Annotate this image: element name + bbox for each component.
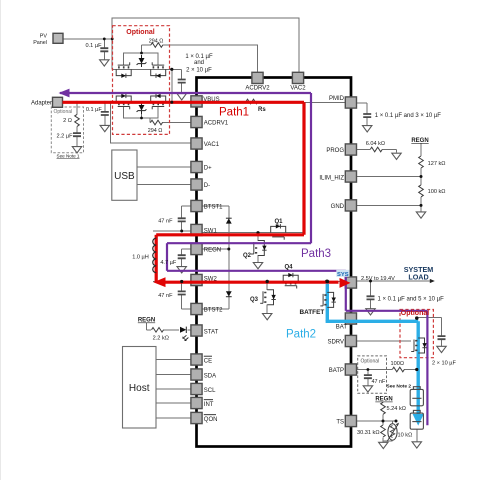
wire TS (357, 420, 397, 422)
pin SW1 (191, 224, 202, 235)
node SW2 cap junction (180, 280, 183, 283)
mosfet Q4 (283, 273, 298, 289)
Host box (123, 347, 157, 429)
optional box SDRV fet (red dashed) (400, 310, 433, 358)
svg-text:Path2: Path2 (286, 328, 316, 340)
svg-text:30.31 kΩ: 30.31 kΩ (357, 430, 380, 436)
svg-text:100Ω: 100Ω (391, 361, 405, 367)
svg-text:Optional: Optional (401, 310, 429, 317)
pin BATP (345, 364, 356, 375)
svg-text:SCL: SCL (204, 388, 216, 394)
battery cell 2 (over path) (410, 410, 423, 429)
wire red inductor leg (155, 235, 158, 282)
wire purple jog down (166, 243, 168, 271)
wire stat pullup (147, 323, 192, 330)
svg-text:10 kΩ: 10 kΩ (398, 433, 413, 439)
red arrow left at SW2 (153, 277, 165, 287)
IC body (197, 78, 352, 447)
svg-text:D-: D- (204, 183, 210, 189)
label SYS highlight (336, 270, 349, 277)
node top gate (140, 52, 143, 55)
pin CE (191, 354, 202, 365)
svg-text:REGN: REGN (204, 247, 221, 253)
thermistor 10k (387, 423, 399, 442)
ground BATP cap (363, 386, 372, 392)
svg-text:See Note 2: See Note 2 (387, 384, 412, 390)
svg-text:STAT: STAT (204, 329, 219, 335)
tvs diode bottom pair (137, 102, 147, 114)
wire 30.31k (382, 421, 384, 442)
svg-text:1 × 0.1 µF and 5 × 10 µF: 1 × 0.1 µF and 5 × 10 µF (378, 297, 445, 303)
ground adapter RC (72, 147, 81, 153)
tvs diode top pair (137, 55, 147, 67)
wire SYS caps (370, 281, 372, 309)
wire host SCL (156, 388, 191, 390)
wire top gate rail (124, 45, 159, 65)
pin REGN (191, 243, 202, 254)
svg-text:VBUS: VBUS (203, 97, 219, 103)
svg-text:SW1: SW1 (204, 228, 218, 234)
node SW1 bootstrap cap (180, 230, 183, 233)
node adapter RC tap (76, 101, 79, 104)
ground 4.7uF (177, 267, 186, 273)
ground PMID bank (363, 126, 372, 132)
node cyan BATP junction (415, 368, 418, 371)
svg-text:VAC1: VAC1 (204, 142, 220, 148)
svg-text:1 × 0.1 µF and 3 × 10 µF: 1 × 0.1 µF and 3 × 10 µF (375, 113, 442, 119)
wire 294 top to ACDRV2 (163, 45, 258, 72)
wire REGN divider (420, 143, 422, 212)
wire PMID caps (357, 103, 368, 126)
svg-text:2 Ω: 2 Ω (63, 118, 72, 124)
wire purple right above BAT (346, 310, 428, 312)
wire purple lower (167, 270, 346, 272)
ground divider (416, 212, 425, 218)
pin ILIM_HIZ (345, 171, 356, 182)
red arrow right at SYS (over purple) (340, 278, 351, 288)
wire Q3 to gnd (266, 282, 268, 314)
wire SW2 internal (202, 281, 346, 283)
purple arrow at adapter (59, 89, 70, 98)
ground vbus bank (177, 94, 186, 100)
wire GND (357, 204, 422, 206)
ground TS divider (379, 442, 388, 448)
node TS thermistor (395, 420, 398, 423)
svg-text:INT: INT (204, 402, 214, 408)
node SW2 bootstrap cap (180, 280, 183, 283)
svg-text:SDA: SDA (204, 373, 216, 379)
ground PV cap (100, 60, 109, 66)
resistor 127k (419, 156, 424, 168)
wire cyan down to battery (417, 321, 420, 415)
acfet2 top pair right fet (151, 62, 166, 78)
pin QON (191, 412, 202, 423)
resistor 6.04k (370, 147, 382, 152)
arrow system load (430, 279, 435, 283)
wire bootstrap column (228, 206, 230, 309)
PV panel terminal (53, 33, 63, 43)
pin INT (191, 397, 202, 408)
capacitor 0.1uF adapter (101, 112, 109, 115)
node cyan 2x10uF junction (415, 317, 418, 320)
wire USB D+ D- (137, 167, 191, 185)
svg-text:SDRV: SDRV (327, 340, 344, 346)
wire BTST1 internal (202, 205, 229, 207)
node Q3 drain (266, 280, 269, 283)
svg-text:ILIM_HIZ: ILIM_HIZ (319, 176, 344, 182)
wire cyan down from SYS line (326, 284, 329, 322)
svg-text:ACDRV2: ACDRV2 (245, 86, 270, 92)
wire FET output to VBUS line (171, 69, 173, 102)
overlines for CE INT QON (204, 356, 216, 415)
wire adapter RC branch (76, 102, 78, 146)
wire BTST1 to 47nF to SW1 (182, 206, 191, 231)
pin PROG (345, 144, 356, 155)
wire adapter 0.1uF (104, 102, 106, 125)
svg-text:Path3: Path3 (301, 248, 331, 260)
svg-text:294 Ω: 294 Ω (149, 38, 164, 44)
ground SYS bank (366, 309, 375, 315)
wire host SDA (156, 374, 191, 376)
mosfet SDRV optional (over cyan) (411, 338, 427, 353)
svg-text:Optional: Optional (126, 29, 154, 36)
svg-text:Optional: Optional (54, 109, 73, 115)
pin BTST1 (191, 200, 202, 211)
wire battery to gnd (416, 429, 418, 441)
node BAT cap branch (415, 316, 418, 319)
wire cyan BAT horizontal (326, 320, 419, 323)
wire bottom gate rail (124, 107, 191, 123)
pin VAC2 (292, 72, 303, 83)
svg-text:47 nF: 47 nF (158, 218, 173, 224)
node PV cap tap (103, 38, 106, 41)
svg-text:Path1: Path1 (219, 106, 249, 118)
resistor 294 bottom (151, 120, 163, 125)
svg-text:1 × 0.1 µF: 1 × 0.1 µF (185, 54, 213, 60)
wire top FET rail (112, 68, 182, 70)
wire Q2 to gnd (257, 233, 259, 263)
svg-text:QON: QON (204, 417, 218, 423)
wire purple down at SYS (345, 271, 347, 311)
wire purple down right (310, 93, 312, 243)
capacitor 47nF top (178, 218, 186, 221)
svg-text:TS: TS (336, 420, 344, 426)
node Q2 drain (256, 231, 259, 234)
optional box top-left (red dashed) (113, 26, 170, 135)
svg-text:PV: PV (40, 33, 48, 39)
wire purple mid left (167, 242, 311, 244)
sense resistor Rs (246, 99, 258, 104)
wire PV panel to node (63, 38, 113, 40)
bootstrap diode REGN to BTST1 (226, 218, 232, 223)
ground battery (412, 442, 421, 448)
ground 2x10uF (437, 346, 446, 352)
pin BTST2 (191, 303, 202, 314)
svg-text:CE: CE (204, 358, 212, 364)
wire host QON (156, 417, 191, 419)
svg-text:ACDRV1: ACDRV1 (204, 120, 229, 126)
svg-text:2.5V to 19.4V: 2.5V to 19.4V (361, 276, 395, 282)
wire 2x10uF (417, 318, 442, 347)
wire red SW2 to SYS (164, 281, 339, 284)
pin ACDRV2 (252, 72, 263, 83)
Adapter terminal (53, 97, 63, 107)
pin SW2 (191, 274, 202, 285)
wire 5.24k (382, 402, 384, 421)
wire top rail PV to VAC2 (112, 18, 299, 72)
resistor 30.31k (381, 425, 386, 437)
mosfet BATFET (over cyan) (320, 292, 336, 307)
wire REGN internal (202, 248, 229, 250)
capacitor 47nF BATP (364, 375, 372, 378)
svg-text:and: and (194, 60, 204, 66)
mosfet Q1 (271, 224, 286, 240)
bootstrap diode REGN to BTST2 (226, 291, 232, 296)
svg-text:See Note 1: See Note 1 (57, 153, 80, 158)
resistor 2.2k (152, 328, 164, 333)
pin ACDRV1 (191, 116, 202, 127)
wire SDRV (357, 340, 412, 342)
pin SYS (345, 277, 356, 288)
svg-text:6.04 kΩ: 6.04 kΩ (366, 141, 385, 147)
ground PROG (392, 153, 401, 159)
inductor 1.0uH coil (153, 238, 156, 273)
svg-text:PROG: PROG (326, 148, 344, 154)
pin D- (191, 179, 202, 190)
pin VAC1 (191, 138, 202, 149)
svg-text:100 kΩ: 100 kΩ (428, 189, 446, 195)
wire adapter to VBUS (63, 101, 192, 103)
svg-text:127 kΩ: 127 kΩ (428, 161, 446, 167)
svg-text:LOAD: LOAD (408, 272, 428, 281)
node VBUS FET output (170, 68, 173, 71)
svg-text:D+: D+ (204, 165, 212, 171)
capacitor 2.2uF (73, 133, 81, 136)
resistor 100ohm (392, 367, 404, 372)
capacitor PMID bank (363, 114, 371, 117)
node VBUS junction (170, 101, 173, 104)
capacitor 4.7uF (178, 255, 186, 258)
wire host CE (156, 359, 191, 361)
wire SW1 internal through Q1 (202, 232, 304, 234)
wire red SW1 (156, 233, 304, 236)
node REGN bootstrap (227, 248, 230, 251)
wire red down right (302, 102, 305, 235)
svg-text:REGN: REGN (138, 318, 155, 324)
wire SW2 (153, 281, 191, 283)
svg-text:USB: USB (114, 171, 135, 182)
mosfet Q2 (251, 241, 267, 256)
svg-text:Q3: Q3 (250, 297, 259, 303)
wire ILIM_HIZ (357, 176, 422, 178)
wire VBUS internal to PMID (202, 101, 346, 103)
svg-text:GND: GND (331, 204, 345, 210)
acfet4 bottom pair right fet (151, 94, 166, 110)
svg-text:5.24 kΩ: 5.24 kΩ (387, 406, 406, 412)
svg-text:0.1 µF: 0.1 µF (86, 107, 103, 113)
pin STAT (191, 325, 202, 336)
svg-text:Host: Host (129, 383, 150, 394)
capacitor SYS bank (367, 296, 375, 299)
pin TS (345, 415, 356, 426)
wire BATP 47nF (367, 370, 369, 386)
svg-text:REGN: REGN (375, 397, 392, 403)
svg-text:2 × 10 µF: 2 × 10 µF (186, 67, 212, 73)
wire REGN 4.7uF (182, 249, 191, 267)
ground adapter cap (100, 125, 109, 131)
svg-text:SW2: SW2 (204, 276, 218, 282)
wire red vbus top (63, 101, 305, 104)
svg-text:Optional: Optional (361, 358, 380, 364)
wire SYS out (357, 280, 432, 282)
wire VAC1 branch (110, 102, 191, 143)
svg-text:BATFET: BATFET (300, 309, 325, 316)
resistor 2ohm adapter (75, 114, 80, 126)
pin SDRV (345, 335, 356, 346)
wire PROG (357, 150, 397, 153)
optional box BATP 47nF (grey dashed) (358, 356, 387, 393)
cyan arrow into battery (413, 414, 424, 426)
svg-text:BTST1: BTST1 (204, 204, 223, 210)
svg-text:REGN: REGN (411, 138, 428, 144)
svg-text:0.1 µF: 0.1 µF (86, 43, 103, 49)
battery cell 1 (over path) (410, 387, 423, 406)
svg-text:Q1: Q1 (275, 219, 284, 225)
svg-text:2.2 µF: 2.2 µF (57, 133, 74, 139)
acfet3 bottom pair left fet (116, 94, 131, 110)
acfet1 top pair left fet (116, 62, 131, 78)
capacitor 47nF bottom (178, 291, 186, 294)
resistor 100k (419, 185, 424, 197)
wire SW1 (153, 230, 191, 232)
capacitor 0.1uF PV (100, 48, 108, 51)
svg-text:BTST2: BTST2 (204, 307, 223, 313)
node SYS cap tap (369, 280, 372, 283)
svg-text:1.0 µH: 1.0 µH (132, 254, 149, 260)
svg-text:BAT: BAT (336, 325, 348, 331)
wire PV 0.1uF cap (103, 39, 105, 60)
node GND divider (420, 204, 423, 207)
pin BAT (345, 313, 356, 324)
wire thermistor bottom (383, 421, 393, 441)
pin D+ (191, 161, 202, 172)
svg-text:47 nF: 47 nF (372, 379, 386, 385)
LED stat (180, 327, 188, 341)
wire BATP (357, 369, 417, 371)
node SYS cap junction (369, 280, 372, 283)
wire purple down to battery (426, 311, 428, 426)
node TS divider (382, 420, 385, 423)
pin PMID (345, 97, 356, 108)
node BATP tap (415, 368, 418, 371)
wire 47nF bottom BTST2 (182, 282, 191, 310)
wire vbus cap branch (181, 69, 183, 93)
svg-text:Q4: Q4 (285, 264, 294, 270)
node Q3 junction (266, 280, 269, 283)
svg-text:47 nF: 47 nF (158, 293, 173, 299)
mosfet Q3 (260, 290, 276, 305)
optional box adapter RC (grey dashed) (51, 107, 83, 153)
node bottom gate (140, 117, 143, 120)
svg-text:294 Ω: 294 Ω (148, 128, 163, 134)
wire internal VBUS down to Q1 (303, 102, 305, 232)
wire purple top (60, 92, 311, 94)
node ILIM divider (420, 175, 423, 178)
node adapter cap tap (103, 101, 106, 104)
node BATFET top (325, 280, 329, 284)
svg-text:2 × 10 µF: 2 × 10 µF (432, 361, 456, 367)
svg-text:Adapter: Adapter (31, 101, 52, 107)
node PV input (111, 38, 114, 41)
junction dots over paths (170, 101, 418, 371)
resistor 5.24k (381, 402, 386, 414)
pin SDA (191, 369, 202, 380)
wire BTST2 internal (202, 308, 229, 310)
ground Q2 (253, 263, 262, 269)
capacitor vbus bank (178, 80, 186, 83)
resistor 294 top (151, 43, 163, 48)
svg-text:Rs: Rs (258, 107, 266, 113)
USB box (112, 150, 137, 200)
node VAC1 branch (109, 101, 112, 104)
svg-text:PMID: PMID (329, 96, 345, 102)
pin SCL (191, 383, 202, 394)
capacitor 2x10uF (438, 336, 446, 339)
svg-text:2.2 kΩ: 2.2 kΩ (153, 335, 169, 341)
svg-text:BATP: BATP (329, 368, 344, 374)
svg-text:Q2: Q2 (243, 253, 252, 259)
svg-text:Panel: Panel (33, 40, 47, 46)
wire host INT (156, 402, 191, 404)
svg-text:SYS: SYS (337, 272, 349, 278)
node cyan BATFET junction (325, 280, 329, 284)
pin GND (345, 200, 356, 211)
pin VBUS (191, 96, 202, 107)
ground Q3 (263, 314, 272, 320)
svg-text:VAC2: VAC2 (290, 86, 306, 92)
svg-text:4.7 µF: 4.7 µF (160, 260, 177, 266)
